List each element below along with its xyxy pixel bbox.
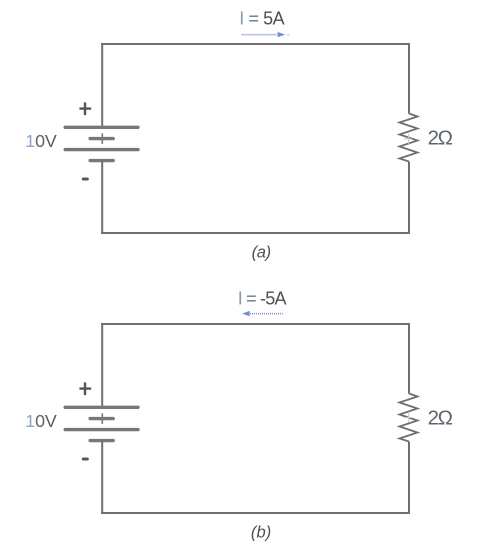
svg-text:2Ω: 2Ω: [428, 127, 453, 150]
wire left lower (b): [101, 441, 103, 514]
wire left lower (a): [101, 161, 103, 234]
current arrow Ib (dotted, pointing left): [242, 311, 283, 316]
wire top (a): [101, 43, 410, 45]
svg-text:I = -5A: I = -5A: [238, 289, 287, 309]
plus polarity mark (a): [79, 102, 91, 115]
resistor R1 2 ohm (a): [400, 114, 418, 162]
svg-text:10V: 10V: [25, 131, 57, 151]
faint plus mark on resistor (b): [404, 412, 413, 423]
battery V2 10V (b): [65, 407, 138, 440]
svg-text:I = 5A: I = 5A: [239, 9, 284, 29]
plus polarity mark (b): [79, 382, 91, 395]
wire bottom (a): [101, 232, 410, 234]
wire left upper (b): [101, 323, 103, 406]
svg-text:(a): (a): [252, 243, 272, 261]
wire left upper (a): [101, 43, 103, 126]
wire right lower (a): [408, 162, 410, 234]
svg-text:(b): (b): [251, 523, 271, 541]
minus polarity mark (b): [83, 458, 87, 461]
wire bottom (b): [101, 512, 410, 514]
wire right lower (b): [408, 442, 410, 514]
battery V1 10V (a): [65, 127, 138, 160]
resistor R2 2 ohm (b): [400, 394, 418, 442]
wire right upper (a): [408, 43, 410, 114]
minus polarity mark (a): [83, 178, 87, 181]
wire right upper (b): [408, 323, 410, 394]
svg-text:2Ω: 2Ω: [428, 406, 453, 429]
current arrow Ia (dotted, pointing right): [242, 32, 290, 37]
svg-text:10V: 10V: [25, 411, 57, 431]
wire top (b): [101, 323, 410, 325]
faint plus mark on resistor (a): [404, 134, 413, 145]
